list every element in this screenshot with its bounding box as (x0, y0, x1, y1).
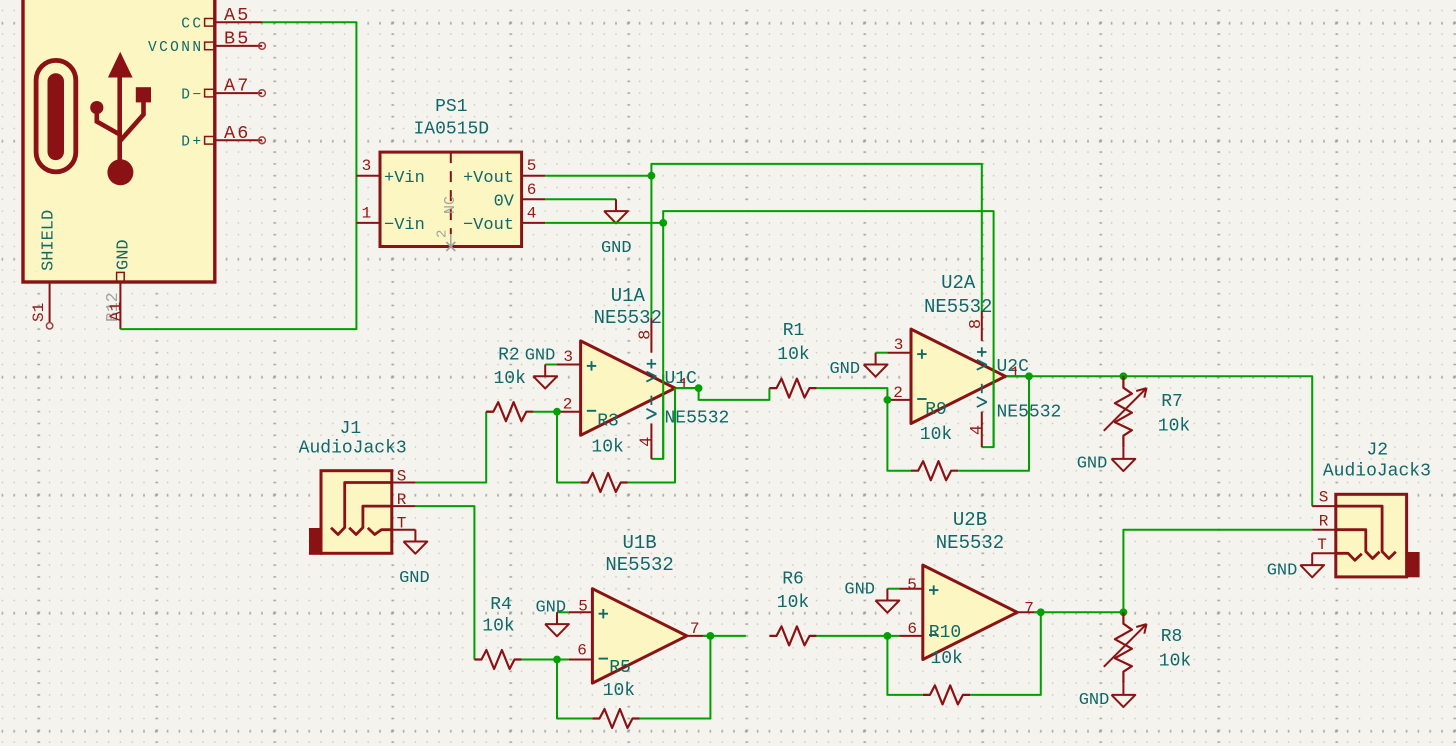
J2 sleeve block (1407, 552, 1420, 577)
svg-text:−Vin: −Vin (384, 216, 425, 235)
ground J1 T (414, 530, 416, 542)
wire R6 to U2B pin6 (817, 635, 900, 637)
connector J2 body (1336, 494, 1407, 577)
USB pin D− (A7) (215, 92, 262, 94)
U2A pin 1 output (1005, 375, 1029, 377)
connector USB-C body (23, 0, 215, 282)
wire U1A feedback right (628, 388, 675, 482)
connector J1 body (321, 471, 392, 554)
svg-text:GND: GND (535, 599, 566, 618)
svg-text:J2: J2 (1366, 441, 1388, 461)
resistor R9 (911, 461, 958, 480)
wire V- rail to U2A pin4 (663, 211, 993, 447)
U2B pin 6 (-) (899, 635, 923, 637)
svg-text:10k: 10k (493, 369, 525, 389)
svg-text:T: T (397, 515, 407, 533)
svg-text:3: 3 (362, 157, 372, 175)
wire V- rail overlay at U2A (993, 365, 995, 447)
J2 pin R (1312, 529, 1336, 531)
svg-text:3: 3 (894, 336, 904, 354)
ground U1A pin3 (544, 365, 546, 377)
PS1 pin 2 hidden stub (450, 234, 452, 246)
svg-text:0V: 0V (494, 193, 515, 212)
svg-text:R: R (397, 491, 407, 509)
PS1 pin 5 +Vout (522, 175, 546, 177)
svg-text:B5: B5 (224, 28, 251, 49)
U1B pin 5 (+) (569, 611, 593, 613)
svg-text:R9: R9 (925, 400, 947, 420)
J1 contact R (349, 506, 392, 534)
svg-text:GND: GND (844, 581, 875, 600)
svg-text:S: S (1319, 489, 1329, 507)
svg-text:+Vout: +Vout (463, 169, 514, 188)
USB pin D+ (A6) (215, 139, 262, 141)
svg-text:U2A: U2A (941, 272, 976, 294)
wire U1A feedback left (557, 412, 581, 483)
power module PS1 body (380, 152, 522, 246)
svg-text:U1A: U1A (611, 285, 646, 307)
PS1 pin 6 0V (522, 198, 546, 200)
wire -Vout to V- junction (545, 222, 663, 224)
wire U1B feedback right (640, 636, 711, 719)
svg-text:7: 7 (690, 620, 700, 638)
svg-text:R3: R3 (597, 412, 619, 432)
svg-text:4: 4 (968, 425, 987, 435)
svg-text:10k: 10k (1159, 652, 1191, 672)
U2A pin 2 (-) (887, 399, 911, 401)
resistor R1 (769, 379, 816, 398)
svg-text:GND: GND (829, 360, 860, 379)
PS1 pin 4 -Vout (522, 222, 546, 224)
svg-text:A7: A7 (224, 76, 251, 97)
svg-text:5: 5 (578, 598, 588, 616)
J1 contact S (331, 483, 392, 535)
junction U2B inverting node (884, 632, 892, 640)
svg-text:6: 6 (907, 620, 917, 638)
svg-text:2: 2 (893, 384, 903, 402)
svg-text:4: 4 (527, 204, 537, 222)
svg-text:10k: 10k (777, 593, 809, 613)
svg-text:R6: R6 (782, 570, 804, 590)
wire 0V to GND (545, 198, 616, 200)
resistor R6 (769, 626, 816, 645)
wire U1B output (703, 635, 746, 637)
resistor R2 (486, 411, 493, 413)
svg-text:+Vin: +Vin (384, 169, 425, 188)
J2 contact T (1336, 553, 1362, 560)
resistor R5 (592, 709, 639, 728)
svg-text:S: S (397, 468, 407, 486)
wire U2B feedback right (970, 612, 1041, 695)
junction U2A inverting node (884, 396, 892, 404)
junction U1B output (707, 632, 715, 640)
U1A pin 3 (+) (557, 364, 581, 366)
U2C power pin 4 (981, 412, 983, 447)
svg-text:D−: D− (181, 87, 203, 103)
svg-text:R2: R2 (498, 346, 520, 366)
ground J2 T (1311, 553, 1313, 565)
svg-text:10k: 10k (482, 617, 514, 637)
svg-text:GND: GND (399, 569, 430, 588)
svg-text:R: R (1319, 512, 1329, 530)
op-amp U1B triangle (592, 589, 686, 683)
potentiometer R8 (1115, 612, 1132, 683)
op-amp U2B triangle (923, 565, 1017, 659)
svg-text:R1: R1 (783, 321, 805, 341)
svg-text:8: 8 (967, 319, 986, 329)
svg-text:R7: R7 (1161, 392, 1183, 412)
J2 contact S (1336, 506, 1396, 558)
svg-text:IA0515D: IA0515D (413, 119, 489, 139)
op-amp U2A triangle (911, 329, 1005, 423)
wire R1 to U2A pin2 (817, 388, 888, 400)
svg-text:T: T (1317, 536, 1327, 554)
wire R2 to U1A pin2 (533, 411, 557, 413)
wire U2B feedback left (887, 636, 922, 695)
wire U1A pin3 GND stub (545, 364, 557, 366)
svg-text:J1: J1 (340, 419, 362, 439)
svg-text:10k: 10k (1158, 416, 1190, 436)
svg-text:5: 5 (907, 576, 917, 594)
U2C V+ rotated name (977, 360, 987, 365)
svg-text:GND: GND (525, 347, 556, 366)
junction U2B output (1037, 608, 1045, 616)
wire U2A feedback left (887, 400, 911, 471)
resistor R10 (923, 685, 970, 704)
svg-text:1: 1 (362, 204, 372, 222)
wire U1A output (676, 388, 769, 400)
svg-text:2: 2 (435, 230, 451, 238)
svg-text:10k: 10k (591, 437, 623, 457)
wire J1-S to R2 (415, 412, 486, 483)
wire U2B output (1034, 611, 1123, 613)
svg-text:PS1: PS1 (435, 97, 467, 117)
J2 pin T (1312, 552, 1336, 554)
junction R7 top (1120, 372, 1128, 380)
svg-text:AudioJack3: AudioJack3 (299, 439, 407, 459)
USB pin CC (A5) (215, 21, 262, 23)
svg-text:NE5532: NE5532 (605, 554, 673, 576)
svg-text:GND: GND (1077, 455, 1108, 474)
svg-text:5: 5 (527, 157, 537, 175)
svg-text:AudioJack3: AudioJack3 (1323, 461, 1431, 481)
U2C power pin 8 (981, 311, 983, 341)
ground U2B pin5 (886, 589, 888, 601)
wire R4 to U1B pin6 (522, 659, 569, 661)
ground U2A pin3 (875, 353, 877, 365)
svg-text:R8: R8 (1161, 627, 1183, 647)
U2B pin 5 (+) (899, 588, 923, 590)
U1B pin 7 output (687, 635, 711, 637)
junction U1A output (695, 384, 703, 392)
svg-text:10k: 10k (930, 649, 962, 669)
svg-text:D+: D+ (181, 135, 203, 151)
resistor R4 (474, 650, 521, 669)
svg-text:U2B: U2B (953, 509, 987, 531)
svg-text:2: 2 (563, 396, 573, 414)
junction U1A inverting node (553, 408, 561, 416)
ground R7 (1122, 447, 1124, 459)
svg-text:NC: NC (442, 196, 459, 214)
svg-text:NE5532: NE5532 (936, 532, 1004, 554)
J1 pin T (392, 529, 416, 531)
svg-text:GND: GND (115, 239, 134, 270)
U1C V+ rotated name (646, 372, 656, 377)
op-amp U1A triangle (581, 341, 675, 435)
wire U2A pin3 GND stub (876, 352, 888, 354)
svg-text:3: 3 (563, 348, 573, 366)
U1C power pin 4 (650, 424, 652, 459)
svg-text:6: 6 (577, 642, 587, 660)
svg-text:GND: GND (601, 239, 632, 258)
svg-text:A1: A1 (107, 302, 125, 321)
svg-text:10k: 10k (920, 425, 952, 445)
wire U2A feedback right (958, 376, 1029, 470)
PS1 pin 1 -Vin (356, 222, 380, 224)
resistor R3 (581, 473, 628, 492)
junction U2A output (1025, 372, 1033, 380)
svg-text:R5: R5 (609, 658, 631, 678)
wire V+ rail to U2A pin8 (651, 164, 981, 311)
wire U1B feedback left (557, 660, 592, 719)
svg-text:U1B: U1B (622, 532, 656, 554)
U1A pin 2 (-) (557, 411, 581, 413)
J2 pin S (1312, 505, 1336, 507)
svg-text:−Vout: −Vout (463, 216, 514, 235)
USB-C receptacle icon (36, 60, 76, 171)
junction U1B inverting node (553, 656, 561, 664)
U1C V- rotated name (646, 409, 656, 414)
wire U1B pin5 GND stub (557, 611, 569, 613)
J2 contact R (1336, 530, 1380, 559)
wire R8 to J2-R (1123, 530, 1312, 613)
USB trident icon (97, 77, 144, 160)
ground PS1 0V (615, 199, 617, 211)
U2C V- rotated name (977, 397, 987, 402)
U1A pin 1 output (675, 387, 699, 389)
PS1 internal divider (dashed) (450, 152, 452, 234)
wire +Vout to V+ junction (545, 175, 651, 177)
potentiometer R7 (1115, 376, 1132, 447)
U1B pin 6 (-) (569, 659, 593, 661)
svg-text:SHIELD: SHIELD (40, 210, 59, 271)
svg-text:10k: 10k (603, 681, 635, 701)
U2A pin 3 (+) (887, 352, 911, 354)
svg-text:GND: GND (1267, 562, 1298, 581)
J1 pin S (392, 482, 416, 484)
junction V- at PS1 output (659, 219, 667, 227)
svg-text:CC: CC (181, 17, 203, 33)
J1 sleeve block (309, 528, 322, 555)
ground R8 (1122, 683, 1124, 695)
junction R8 top (1120, 608, 1128, 616)
wire CC to +Vin/-Vin rail and USB GND (120, 22, 356, 329)
svg-text:S1: S1 (30, 303, 48, 322)
U1C power pin 8 (650, 318, 652, 353)
USB pin SHIELD (S1) (49, 282, 51, 323)
wire J1-R to R4 (415, 506, 474, 659)
svg-text:VCONN: VCONN (148, 40, 204, 56)
svg-text:A6: A6 (224, 123, 251, 144)
wire V- down to U1A pin4 (651, 223, 663, 459)
svg-text:7: 7 (1024, 600, 1034, 618)
svg-text:A5: A5 (224, 5, 251, 26)
U2B pin 7 output (1017, 611, 1041, 613)
svg-text:8: 8 (636, 330, 655, 340)
PS1 pin 3 +Vin (356, 175, 380, 177)
svg-text:R10: R10 (929, 623, 961, 643)
USB pin GND (A1/B12) (119, 282, 121, 329)
J1 pin R (392, 505, 416, 507)
svg-text:R4: R4 (490, 595, 512, 615)
ground U1B pin5 (556, 612, 558, 624)
svg-text:GND: GND (1079, 691, 1110, 710)
svg-text:1: 1 (1010, 364, 1020, 382)
wire U2B pin5 GND stub (887, 588, 899, 590)
wire V+ down to U1A pin8 (650, 176, 652, 318)
wire U2A output (1006, 376, 1312, 506)
svg-text:1: 1 (679, 376, 689, 394)
svg-text:4: 4 (637, 437, 656, 447)
J1 contact T (368, 528, 392, 535)
svg-text:6: 6 (527, 181, 537, 199)
junction V+ at PS1 output (648, 172, 656, 180)
svg-text:10k: 10k (777, 345, 809, 365)
USB pin VCONN (B5) (215, 45, 262, 47)
wire V- rail overlay at U1A (662, 375, 664, 459)
